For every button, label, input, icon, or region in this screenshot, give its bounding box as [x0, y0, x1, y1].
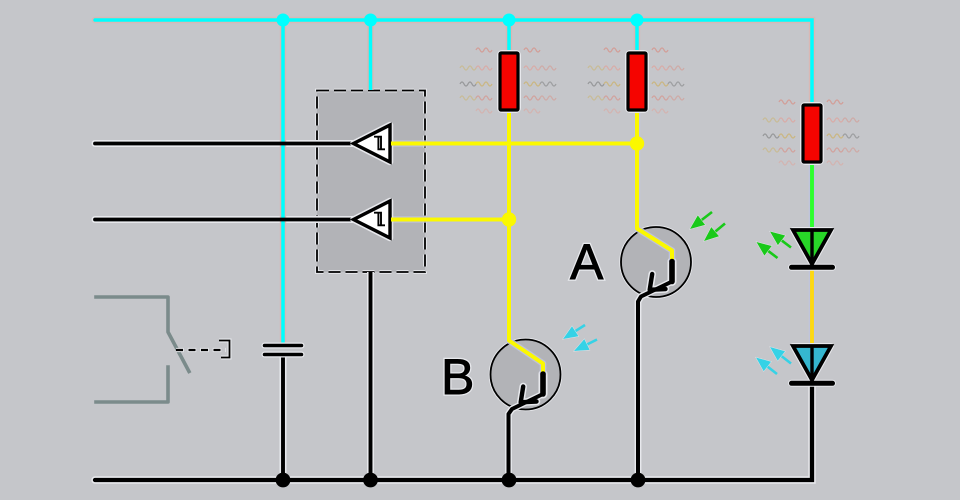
wire VCC drop to IC box [369, 20, 373, 90]
wire VCC top rail [95, 20, 812, 106]
wire ground bottom rail + cyan LED drop [95, 384, 812, 480]
transistor Q-B (phototransistor) [491, 340, 561, 410]
node VCC junction 4 [631, 14, 644, 27]
resistor R3 heat glow [779, 100, 795, 104]
svg-text:A: A [570, 234, 604, 290]
wire R2 bottom down toward Q-A [635, 109, 639, 226]
black wire halos [95, 140, 356, 147]
wire buffer output stubs [391, 142, 399, 146]
node ground junction 4 [631, 473, 646, 488]
op-amp buffer U1a (schmitt) [354, 125, 391, 162]
node VCC junction 3 [503, 14, 516, 27]
transistor Q-B light arrows [575, 325, 585, 331]
wire IC box ground [369, 272, 373, 480]
wire fringes (pink under cyan, lavender under yellow/green/gold) [95, 20, 812, 106]
wire capacitor to ground rail [281, 356, 285, 480]
LED D2 cyan [793, 346, 831, 380]
LED D1 emitted light arrows [782, 240, 792, 247]
capacitor C1 [265, 343, 302, 349]
resistor R1 [500, 53, 518, 110]
node VCC junction 2 [364, 14, 377, 27]
wire VCC drop to capacitor [281, 20, 285, 344]
node net A junction [630, 136, 644, 150]
wire net B: buffer2 output to R1 column [390, 218, 509, 222]
node ground junction 3 [502, 473, 517, 488]
LED D1 green [793, 230, 831, 264]
resistor R2 heat glow [604, 48, 620, 52]
transistor Q-A light arrows [702, 212, 713, 220]
LED D2 emitted light arrows [781, 356, 791, 364]
op-amp buffer U1b (schmitt) [354, 201, 391, 238]
wire green LED to cyan LED [810, 269, 814, 347]
wire R3 to green LED [810, 161, 814, 231]
wire input 1 to buffer1 [95, 142, 356, 146]
switch S1 actuator bracket [219, 341, 230, 358]
resistor R3 [803, 105, 821, 162]
node VCC junction 1 [277, 14, 290, 27]
switch S1 actuator dashed link [176, 348, 226, 352]
wire R1 bottom down toward Q-B [507, 109, 511, 338]
IC box U1 (dual schmitt buffer, dashed outline) [317, 91, 425, 273]
resistor R2 [628, 53, 646, 110]
node ground junction 2 [363, 473, 378, 488]
wire VCC drop to R1 [507, 20, 511, 54]
node ground junction 1 [276, 473, 291, 488]
wire VCC drop to R2 [635, 20, 639, 54]
switch S1 (open) [96, 297, 189, 402]
wire net A: buffer1 output across to R2 column [390, 142, 637, 146]
transistor Q-A (phototransistor) [621, 227, 691, 297]
wire input 2 to buffer2 [95, 218, 356, 222]
svg-text:B: B [441, 349, 474, 405]
node net B junction [502, 212, 516, 226]
resistor R1 heat glow [476, 48, 492, 52]
